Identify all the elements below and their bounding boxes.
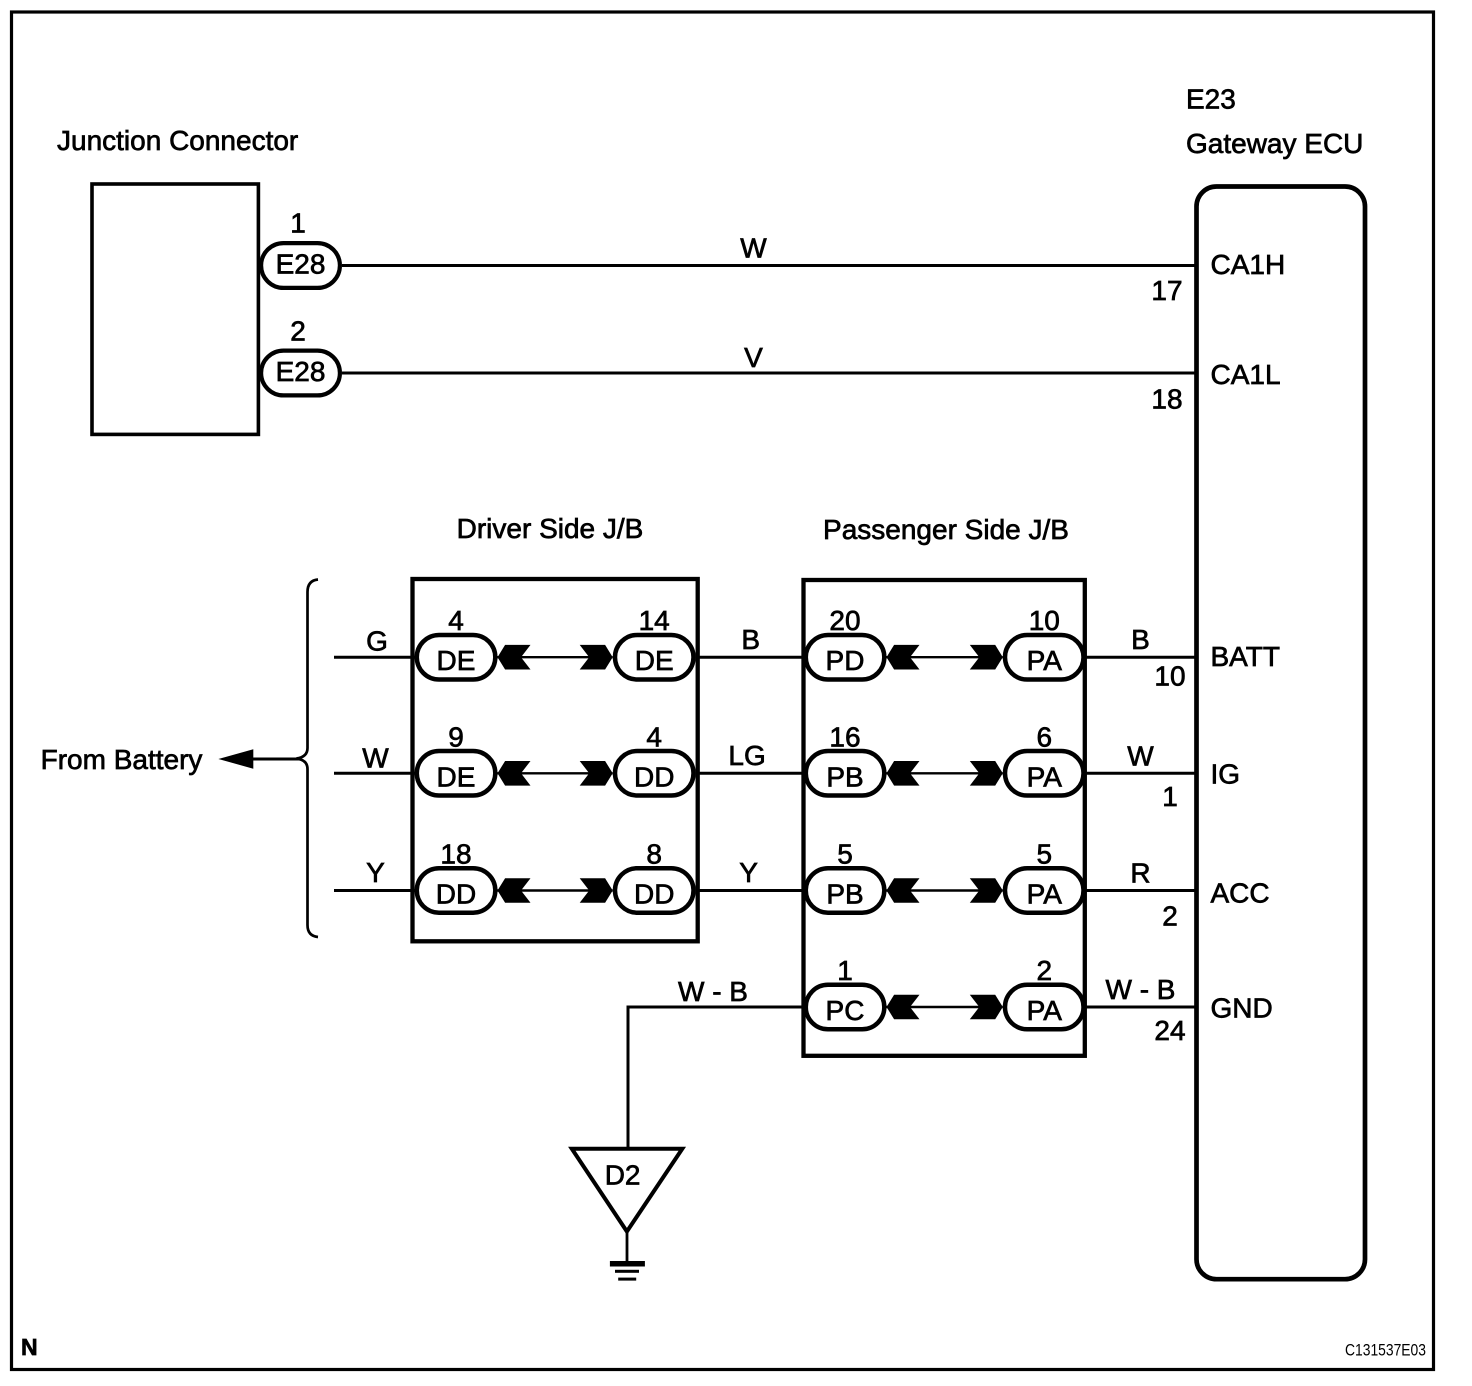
svg-text:CA1L: CA1L [1211,359,1281,390]
svg-text:2: 2 [1162,900,1178,931]
svg-text:1: 1 [290,208,306,239]
svg-text:Y: Y [366,857,385,888]
svg-text:DD: DD [634,761,674,792]
svg-text:Driver Side J/B: Driver Side J/B [457,513,644,544]
svg-text:R: R [1130,858,1150,889]
svg-text:2: 2 [290,316,306,347]
svg-text:B: B [741,624,760,655]
svg-text:DD: DD [634,879,674,910]
svg-text:B: B [1131,624,1150,655]
svg-text:8: 8 [646,839,662,870]
svg-text:5: 5 [1037,839,1053,870]
svg-text:DE: DE [635,645,674,676]
svg-text:PB: PB [826,761,863,792]
svg-text:18: 18 [1151,384,1182,415]
svg-text:Gateway ECU: Gateway ECU [1186,128,1363,159]
svg-text:Y: Y [739,857,758,888]
svg-text:18: 18 [440,839,471,870]
svg-text:From Battery: From Battery [41,744,203,775]
svg-text:V: V [744,342,763,373]
svg-text:E23: E23 [1186,84,1236,115]
svg-text:9: 9 [448,721,464,752]
svg-text:Passenger Side J/B: Passenger Side J/B [823,514,1069,545]
svg-text:PA: PA [1027,879,1063,910]
svg-text:16: 16 [829,721,860,752]
svg-text:DD: DD [436,879,476,910]
svg-text:2: 2 [1037,955,1053,986]
svg-text:5: 5 [837,839,853,870]
svg-text:PB: PB [826,879,863,910]
svg-text:C131537E03: C131537E03 [1345,1341,1426,1360]
svg-text:W: W [362,743,389,774]
svg-text:D2: D2 [605,1159,641,1190]
svg-text:6: 6 [1037,721,1053,752]
svg-text:BATT: BATT [1211,641,1280,672]
svg-text:W - B: W - B [1106,974,1176,1005]
svg-text:1: 1 [1162,781,1178,812]
svg-text:1: 1 [837,955,853,986]
svg-text:CA1H: CA1H [1211,249,1286,280]
svg-text:LG: LG [728,740,765,771]
svg-text:W: W [1127,740,1154,771]
svg-text:E28: E28 [276,356,326,387]
svg-text:4: 4 [448,605,464,636]
svg-text:E28: E28 [276,249,326,280]
svg-text:GND: GND [1211,993,1273,1024]
svg-text:Junction Connector: Junction Connector [57,125,298,156]
svg-text:14: 14 [639,605,670,636]
svg-text:24: 24 [1154,1015,1185,1046]
svg-text:DE: DE [437,645,476,676]
svg-text:W: W [740,233,767,264]
svg-text:PA: PA [1027,761,1063,792]
svg-text:PD: PD [826,645,865,676]
svg-text:PC: PC [826,995,865,1026]
svg-text:PA: PA [1027,995,1063,1026]
svg-text:10: 10 [1154,661,1185,692]
svg-text:DE: DE [437,761,476,792]
svg-text:IG: IG [1211,759,1241,790]
svg-text:N: N [21,1334,38,1360]
svg-text:17: 17 [1151,275,1182,306]
svg-text:4: 4 [646,721,662,752]
svg-text:G: G [366,626,388,657]
svg-text:ACC: ACC [1211,878,1270,909]
svg-text:10: 10 [1029,605,1060,636]
svg-text:PA: PA [1027,645,1063,676]
svg-text:W - B: W - B [678,976,748,1007]
svg-text:20: 20 [829,605,860,636]
